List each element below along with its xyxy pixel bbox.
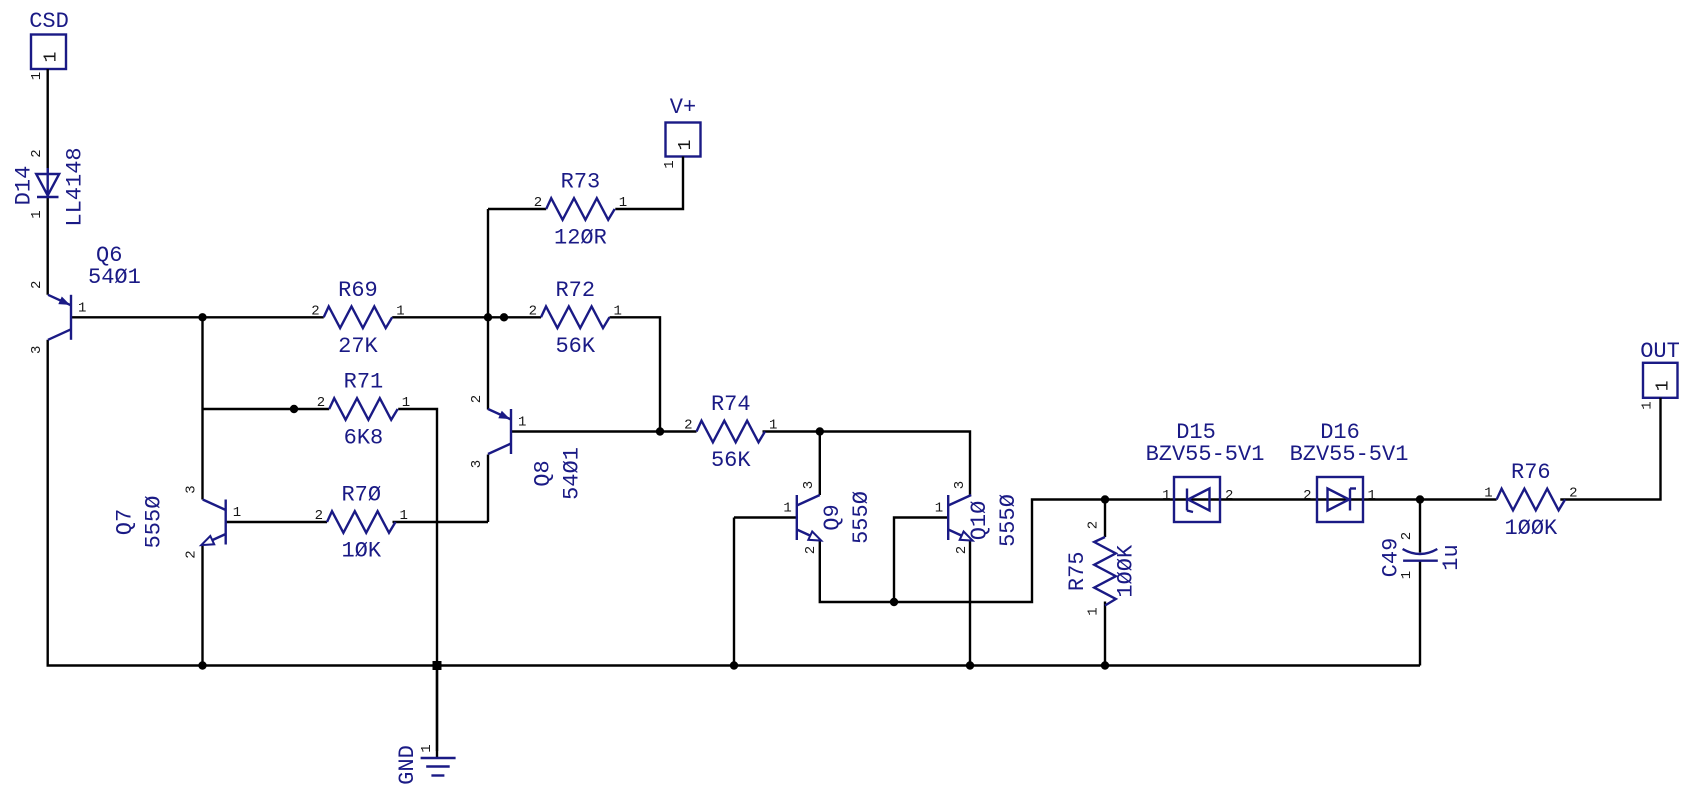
svg-text:1: 1: [676, 140, 696, 151]
resistor R74: [684, 392, 777, 473]
resistor R70: [315, 483, 408, 564]
wire through zeners to C49 node: [1105, 498, 1420, 500]
diode D14 LL4148: [12, 147, 88, 226]
port V+: [662, 95, 701, 169]
svg-text:2: 2: [684, 418, 692, 434]
zener diode D16: [1317, 477, 1363, 522]
junction rail Q9 base: [730, 661, 738, 669]
wire to GND symbol: [436, 666, 438, 758]
junction R73/Q8 node: [484, 313, 492, 321]
svg-text:54Ø1: 54Ø1: [88, 265, 141, 290]
resistor R76: [1484, 460, 1577, 541]
svg-text:2: 2: [954, 546, 970, 554]
ground symbol GND: [395, 744, 456, 785]
svg-text:2: 2: [311, 303, 319, 319]
junction C49 top node: [1416, 495, 1424, 503]
junction Q9 collector node: [816, 427, 824, 435]
junction Q6 base node: [198, 313, 206, 321]
resistor R73: [534, 170, 627, 251]
wire Q6 collector to ground rail: [48, 340, 1420, 666]
svg-text:1: 1: [783, 501, 791, 517]
svg-text:R69: R69: [338, 278, 378, 303]
svg-text:12ØR: 12ØR: [554, 226, 607, 251]
svg-text:BZV55-5V1: BZV55-5V1: [1146, 442, 1265, 467]
svg-text:D14: D14: [12, 166, 37, 206]
junction rail Q7: [198, 661, 206, 669]
svg-text:1: 1: [769, 418, 777, 434]
svg-text:1: 1: [419, 744, 435, 752]
wire C49 to rail: [1419, 561, 1421, 666]
junction rail Q10: [966, 661, 974, 669]
junction R75 top node: [1101, 495, 1109, 503]
svg-text:1: 1: [1640, 401, 1656, 409]
svg-text:1ØK: 1ØK: [341, 539, 381, 564]
svg-text:R7Ø: R7Ø: [341, 483, 381, 508]
svg-text:56K: 56K: [711, 448, 751, 473]
wire Q9 base: [734, 516, 797, 518]
svg-text:1: 1: [29, 210, 45, 218]
svg-text:1: 1: [935, 501, 943, 517]
resistor R71: [317, 370, 410, 451]
resistor R75: [1065, 521, 1139, 616]
transistor Q10: [935, 481, 1021, 554]
svg-text:2: 2: [1303, 488, 1311, 504]
svg-text:1: 1: [614, 303, 622, 319]
transistor Q6 5401 labels: [88, 243, 141, 290]
svg-text:1: 1: [29, 72, 45, 80]
svg-text:3: 3: [184, 485, 200, 493]
svg-text:1: 1: [518, 415, 526, 431]
resistor R72: [529, 278, 622, 359]
transistor Q9: [783, 481, 873, 554]
svg-text:1: 1: [42, 52, 62, 63]
svg-text:2: 2: [469, 395, 485, 403]
svg-text:Q7: Q7: [113, 509, 138, 535]
svg-text:1ØØK: 1ØØK: [1114, 544, 1139, 598]
wire V+ node down to Q8 collector: [487, 209, 489, 410]
svg-text:2: 2: [29, 281, 45, 289]
svg-text:CSD: CSD: [29, 9, 69, 34]
wire R71 pin2: [203, 408, 330, 410]
wire R73 pin2: [488, 208, 546, 210]
svg-text:Q9: Q9: [820, 504, 845, 530]
wire R71 pin1 down to GND: [398, 409, 437, 751]
svg-text:555Ø: 555Ø: [996, 494, 1021, 547]
wire R69 to R72: [392, 316, 541, 318]
wire R74 to Q10 collector: [763, 432, 971, 496]
svg-text:R75: R75: [1065, 551, 1090, 591]
svg-text:3: 3: [952, 481, 968, 489]
svg-text:2: 2: [184, 550, 200, 558]
junction R71 wire: [290, 405, 298, 413]
svg-text:Q8: Q8: [531, 460, 556, 486]
svg-text:BZV55-5V1: BZV55-5V1: [1290, 442, 1409, 467]
wire D14 to Q6 emitter: [47, 197, 49, 295]
svg-text:R76: R76: [1511, 460, 1551, 485]
svg-text:1: 1: [78, 300, 86, 316]
svg-text:2: 2: [1086, 521, 1102, 529]
port CSD: [29, 9, 69, 80]
svg-text:R73: R73: [561, 170, 601, 195]
svg-text:27K: 27K: [338, 334, 378, 359]
wire R72 pin1 down: [610, 317, 661, 431]
svg-text:2: 2: [534, 195, 542, 211]
port OUT: [1640, 339, 1680, 410]
svg-text:56K: 56K: [555, 334, 595, 359]
transistor Q7: [113, 485, 241, 558]
junction Q8 base node: [656, 427, 664, 435]
junction rail R75: [1101, 661, 1109, 669]
wire Q7 emitter to rail: [201, 545, 203, 666]
svg-text:1: 1: [1162, 488, 1170, 504]
svg-text:6K8: 6K8: [344, 426, 384, 451]
capacitor C49 1u: [1379, 532, 1465, 579]
wire Q7 base to R70: [226, 521, 327, 523]
zener labels D16: [1290, 420, 1409, 467]
svg-text:R72: R72: [555, 278, 595, 303]
svg-text:3: 3: [469, 460, 485, 468]
svg-text:1: 1: [233, 505, 241, 521]
svg-text:3: 3: [29, 346, 45, 354]
svg-text:555Ø: 555Ø: [849, 491, 874, 544]
wire Q8 emitter down: [487, 455, 489, 523]
wire Q10 base: [894, 518, 948, 603]
wire Q6 base to R69: [71, 316, 324, 318]
svg-text:1u: 1u: [1439, 544, 1464, 570]
junction rail GND: [433, 661, 442, 670]
svg-text:Q1Ø: Q1Ø: [967, 501, 992, 541]
svg-text:R71: R71: [344, 370, 384, 395]
svg-text:LL4148: LL4148: [63, 147, 88, 226]
svg-text:1: 1: [619, 195, 627, 211]
svg-text:R74: R74: [711, 392, 751, 417]
wire to C49: [1419, 500, 1421, 553]
svg-text:OUT: OUT: [1640, 339, 1680, 364]
svg-text:1: 1: [1086, 607, 1102, 615]
svg-text:1: 1: [396, 303, 404, 319]
svg-text:1: 1: [1399, 571, 1415, 579]
svg-text:54Ø1: 54Ø1: [560, 447, 585, 500]
wire CSD to D14: [47, 69, 49, 173]
svg-text:1ØØK: 1ØØK: [1504, 516, 1558, 541]
svg-text:1: 1: [400, 508, 408, 524]
wire Q9 base to rail: [733, 518, 735, 666]
wire down to Q9 collector: [819, 432, 821, 496]
svg-text:1: 1: [1484, 486, 1492, 502]
svg-text:1: 1: [662, 160, 678, 168]
wire to R76: [1420, 498, 1497, 500]
wire R76 to OUT: [1560, 398, 1660, 500]
svg-text:1: 1: [1654, 380, 1674, 391]
svg-text:2: 2: [803, 546, 819, 554]
svg-text:1: 1: [1368, 488, 1376, 504]
svg-text:2: 2: [317, 395, 325, 411]
svg-text:555Ø: 555Ø: [142, 496, 167, 549]
transistor Q8: [469, 395, 585, 500]
svg-text:1: 1: [402, 395, 410, 411]
svg-text:2: 2: [1225, 488, 1233, 504]
svg-text:V+: V+: [670, 95, 696, 120]
zener labels D15: [1146, 420, 1265, 467]
transistor Q6: [29, 281, 86, 354]
svg-text:2: 2: [529, 303, 537, 319]
svg-text:2: 2: [29, 149, 45, 157]
wire node down to Q7 collector: [201, 317, 203, 499]
wire R75 to rail: [1104, 602, 1106, 666]
svg-text:3: 3: [801, 481, 817, 489]
zener pin numbers: [1162, 488, 1376, 504]
resistor R69: [311, 278, 404, 359]
svg-text:2: 2: [1569, 486, 1577, 502]
junction Q9 emitter / Q10 base: [890, 598, 898, 606]
junction R72 node: [500, 313, 508, 321]
svg-text:2: 2: [315, 508, 323, 524]
svg-text:2: 2: [1399, 532, 1415, 540]
zener diode D15: [1174, 477, 1220, 522]
wire Q9 emitter to zener node: [820, 500, 1105, 603]
wire Q10 emitter to rail: [969, 540, 971, 666]
wire to R75: [1104, 500, 1106, 538]
wire R73 pin1 to V+: [615, 157, 683, 210]
svg-text:GND: GND: [395, 745, 420, 785]
wire Q8 base to R74: [511, 430, 697, 432]
wire R70 to Q8 emitter: [393, 521, 489, 523]
